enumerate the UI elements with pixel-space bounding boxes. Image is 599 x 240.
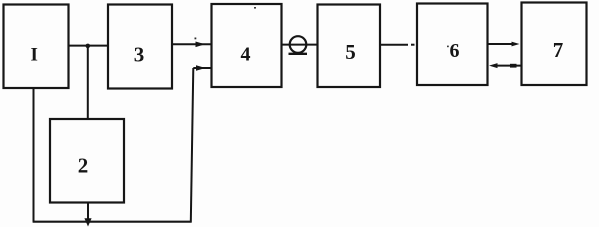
block 1 bbox=[4, 5, 69, 89]
scan speck above wire bbox=[195, 38, 197, 40]
svg-text:6: 6 bbox=[450, 40, 460, 62]
wire block1 bottom feedback down bbox=[33, 88, 35, 222]
indicator underline bbox=[289, 53, 308, 55]
block 2 bbox=[50, 119, 124, 203]
wire block4 to block5 bbox=[282, 44, 318, 46]
svg-text:4: 4 bbox=[241, 44, 251, 66]
arrowhead into block4 upper input bbox=[196, 42, 206, 48]
svg-text:5: 5 bbox=[345, 40, 356, 64]
wire block7 to block6 lower bbox=[498, 65, 522, 67]
scan speck above label 4 bbox=[254, 7, 256, 9]
arrowhead into block4 lower input bbox=[196, 65, 206, 71]
block 7 bbox=[522, 3, 587, 86]
scan speck left of label 6 bbox=[447, 46, 449, 48]
junction dot bbox=[86, 44, 91, 49]
wire block3 to block4 bbox=[172, 43, 212, 45]
wire block6 to block7 upper bbox=[488, 43, 513, 45]
svg-text:3: 3 bbox=[134, 43, 145, 67]
arrowhead down onto rail bbox=[84, 218, 91, 226]
svg-text:7: 7 bbox=[553, 38, 564, 62]
arrowhead into block6 bbox=[489, 63, 498, 68]
block 4 bbox=[212, 4, 282, 87]
wire rail up to block4 lower input bbox=[191, 68, 194, 223]
svg-text:2: 2 bbox=[78, 154, 89, 178]
indicator circle on wire bbox=[290, 36, 307, 53]
block 5 bbox=[318, 5, 381, 88]
wire block5 to block6 (broken scan) bbox=[380, 44, 408, 46]
wire bottom rail bbox=[33, 221, 192, 223]
ink blob on lower wire bbox=[510, 64, 517, 68]
wire block2 bottom stub bbox=[87, 203, 89, 220]
wire into block4 lower input bbox=[193, 67, 211, 69]
wire junction down to block2 top bbox=[87, 46, 89, 119]
wire dash near block6 bbox=[411, 44, 415, 46]
block 6 bbox=[417, 4, 488, 86]
block 3 bbox=[108, 5, 172, 89]
arrowhead into block7 bbox=[512, 42, 520, 47]
wire block1 to block3 bbox=[69, 45, 109, 47]
svg-text:I: I bbox=[30, 45, 37, 66]
